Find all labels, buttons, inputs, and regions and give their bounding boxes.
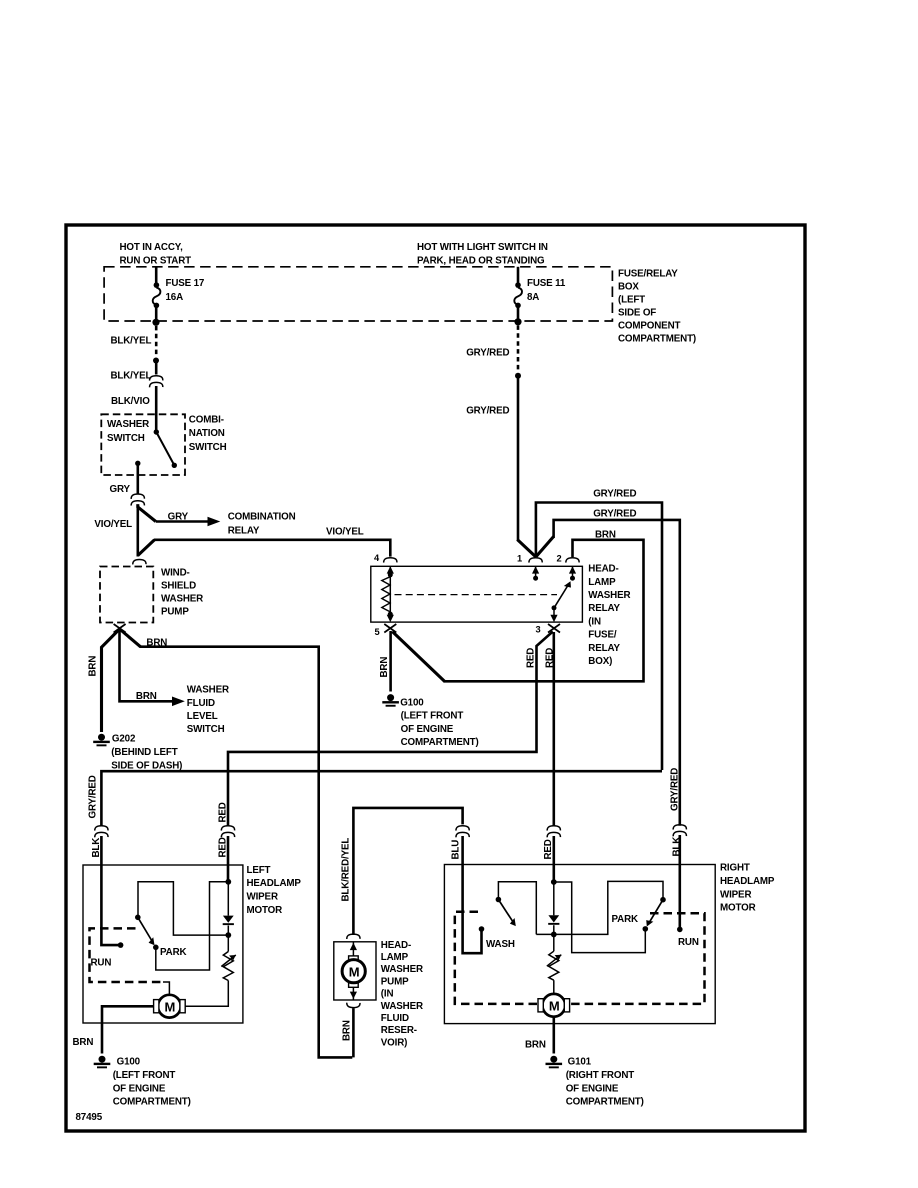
resistor right motor xyxy=(547,934,562,994)
ground G100 left xyxy=(94,1056,191,1108)
svg-text:2: 2 xyxy=(557,554,562,564)
relay switch blade xyxy=(552,580,574,611)
wire GRY/RED line2 with diagonal to pin1 xyxy=(536,520,680,826)
svg-text:WASHER: WASHER xyxy=(588,590,630,601)
wire BLU link bus xyxy=(353,808,462,935)
svg-text:OF ENGINE: OF ENGINE xyxy=(401,724,454,735)
dashed box right motor xyxy=(455,912,705,1004)
connector arc headlamp washer pump top xyxy=(347,934,360,939)
svg-text:COMPARTMENT): COMPARTMENT) xyxy=(401,737,479,748)
label HEADLAMP WASHER RELAY (IN FUSE/RELAY BOX) xyxy=(588,564,630,667)
label HOT WITH LIGHT SWITCH xyxy=(417,242,548,266)
svg-text:GRY/RED: GRY/RED xyxy=(466,348,509,359)
svg-text:WASHER: WASHER xyxy=(187,685,229,696)
pin 4 xyxy=(374,553,397,563)
svg-text:SIDE OF DASH): SIDE OF DASH) xyxy=(111,761,182,772)
svg-text:3: 3 xyxy=(536,625,541,635)
connector C right RED xyxy=(547,826,560,882)
svg-text:HEAD-: HEAD- xyxy=(588,564,618,575)
svg-text:PUMP: PUMP xyxy=(381,976,409,987)
dashed run path left motor xyxy=(90,928,170,994)
svg-text:HEAD-: HEAD- xyxy=(381,940,411,951)
svg-text:(LEFT FRONT: (LEFT FRONT xyxy=(401,711,464,722)
connector arc pump bottom xyxy=(347,1003,360,1008)
svg-text:SWITCH: SWITCH xyxy=(107,433,145,444)
park contact chain right xyxy=(554,882,646,953)
svg-text:LAMP: LAMP xyxy=(588,577,616,588)
wire BRN to G202 xyxy=(102,629,120,732)
svg-text:MOTOR: MOTOR xyxy=(720,903,756,914)
wire GRY/RED link bus to left motor xyxy=(101,771,662,825)
wire GRY/RED dashed from fuse 11 xyxy=(515,325,521,540)
svg-text:(RIGHT FRONT: (RIGHT FRONT xyxy=(566,1070,635,1081)
svg-text:GRY/RED: GRY/RED xyxy=(466,406,509,417)
washer switch box (dashed) xyxy=(101,414,185,475)
svg-text:MOTOR: MOTOR xyxy=(247,905,283,916)
svg-text:WASHER: WASHER xyxy=(381,1001,423,1012)
svg-text:COMPARTMENT): COMPARTMENT) xyxy=(618,334,696,345)
pin 3 xyxy=(536,624,561,635)
connector C left RED xyxy=(221,826,234,882)
svg-text:16A: 16A xyxy=(166,292,184,303)
svg-text:OF ENGINE: OF ENGINE xyxy=(113,1083,166,1094)
wire BRN pin5 to G100 xyxy=(389,631,392,692)
connector C left BLK xyxy=(95,826,108,864)
wire BRN pump return xyxy=(352,1008,355,1057)
svg-text:WIPER: WIPER xyxy=(247,892,278,903)
motor M right xyxy=(538,994,570,1017)
svg-text:BRN: BRN xyxy=(342,1020,353,1041)
svg-text:WASHER: WASHER xyxy=(107,419,149,430)
svg-text:BRN: BRN xyxy=(379,657,390,678)
wire BLU inside to wash contact xyxy=(463,865,485,954)
wire BRN long to headlamp washer pump return xyxy=(120,629,353,1057)
svg-text:HEADLAMP: HEADLAMP xyxy=(247,878,302,889)
switch park left: pivot and blade xyxy=(135,915,159,951)
label HEADLAMP WASHER PUMP (IN WASHER FLUID RESERVOIR) xyxy=(381,940,423,1049)
svg-text:COMPARTMENT): COMPARTMENT) xyxy=(566,1097,644,1108)
right headlamp wiper motor box xyxy=(444,865,715,1024)
svg-text:FUSE/RELAY: FUSE/RELAY xyxy=(618,269,678,280)
svg-text:NATION: NATION xyxy=(189,428,225,439)
pin 1 xyxy=(517,554,542,564)
svg-text:FUSE 11: FUSE 11 xyxy=(527,278,566,289)
svg-text:COMBI-: COMBI- xyxy=(189,414,224,425)
pin 2 xyxy=(557,554,580,564)
svg-text:BRN: BRN xyxy=(136,691,157,702)
svg-text:1: 1 xyxy=(517,554,522,564)
svg-text:LEFT: LEFT xyxy=(247,865,271,876)
relay pin2 contact xyxy=(569,566,576,580)
svg-text:VOIR): VOIR) xyxy=(381,1037,407,1048)
svg-text:FUSE 17: FUSE 17 xyxy=(166,278,205,289)
ground G202 xyxy=(93,734,182,772)
wire GRY to combination relay arrow xyxy=(138,504,221,526)
svg-text:OF ENGINE: OF ENGINE xyxy=(566,1083,619,1094)
connector C right BLK xyxy=(673,825,686,930)
fuse F17 16A xyxy=(152,267,204,326)
svg-text:BLK/RED/YEL: BLK/RED/YEL xyxy=(340,838,351,902)
svg-text:SHIELD: SHIELD xyxy=(161,580,196,591)
svg-text:HOT IN ACCY,: HOT IN ACCY, xyxy=(120,242,184,253)
svg-text:VIO/YEL: VIO/YEL xyxy=(94,519,132,530)
wire GRY from washer switch xyxy=(137,463,140,494)
svg-text:BLK/YEL: BLK/YEL xyxy=(111,371,152,382)
svg-text:PARK: PARK xyxy=(160,947,187,958)
terminal X windshield washer pump xyxy=(114,624,126,633)
ground G100 mid xyxy=(382,694,478,748)
svg-text:BOX): BOX) xyxy=(588,656,612,667)
svg-text:RED: RED xyxy=(217,837,228,857)
svg-text:G100: G100 xyxy=(400,697,424,708)
svg-text:WIPER: WIPER xyxy=(720,889,751,900)
wire RED right branch from pin 3 xyxy=(552,632,555,826)
svg-text:GRY/RED: GRY/RED xyxy=(593,509,636,520)
svg-text:(LEFT: (LEFT xyxy=(618,295,645,306)
right motor RED junction dot xyxy=(551,879,557,885)
svg-text:LAMP: LAMP xyxy=(381,952,409,963)
svg-text:GRY: GRY xyxy=(168,511,189,522)
headlamp washer pump box xyxy=(334,942,376,1000)
svg-text:HOT WITH LIGHT SWITCH IN: HOT WITH LIGHT SWITCH IN xyxy=(417,242,548,253)
label RIGHT HEADLAMP WIPER MOTOR xyxy=(720,862,775,913)
svg-text:GRY/RED: GRY/RED xyxy=(669,768,680,811)
svg-text:BRN: BRN xyxy=(87,656,98,677)
svg-text:VIO/YEL: VIO/YEL xyxy=(326,527,364,538)
left motor park pivot connection stub xyxy=(156,882,229,970)
svg-text:COMPONENT: COMPONENT xyxy=(618,321,680,332)
wire BRN to washer fluid level switch xyxy=(120,629,185,706)
svg-text:WASH: WASH xyxy=(486,939,515,950)
fuse/relay box (dashed) xyxy=(104,267,612,321)
svg-text:RED: RED xyxy=(526,648,537,668)
fuse F11 8A xyxy=(514,267,566,326)
svg-text:RELAY: RELAY xyxy=(588,643,620,654)
connector arc windshield washer pump xyxy=(133,560,146,565)
motor M left xyxy=(154,995,186,1018)
svg-text:BLK/YEL: BLK/YEL xyxy=(111,336,152,347)
svg-text:BRN: BRN xyxy=(73,1037,94,1048)
wire BLK/YEL dashed from fuse 17 xyxy=(153,326,159,375)
svg-text:WIND-: WIND- xyxy=(161,567,190,578)
svg-text:BRN: BRN xyxy=(595,529,616,540)
svg-text:BLU: BLU xyxy=(450,840,461,860)
svg-text:(IN: (IN xyxy=(588,616,601,627)
svg-text:FLUID: FLUID xyxy=(187,698,215,709)
svg-text:HEADLAMP: HEADLAMP xyxy=(720,876,775,887)
svg-text:(LEFT FRONT: (LEFT FRONT xyxy=(113,1070,176,1081)
wire BLK/VIO xyxy=(155,386,158,430)
relay linkage dashed xyxy=(395,594,558,596)
svg-text:PUMP: PUMP xyxy=(161,607,189,618)
svg-text:M: M xyxy=(165,999,176,1014)
svg-text:RED: RED xyxy=(543,839,554,859)
label WASHER FLUID LEVEL SWITCH xyxy=(187,685,229,736)
svg-text:COMBINATION: COMBINATION xyxy=(228,511,296,522)
svg-text:BRN: BRN xyxy=(146,637,167,648)
svg-text:PARK: PARK xyxy=(612,914,639,925)
svg-text:SWITCH: SWITCH xyxy=(187,724,225,735)
svg-text:BLK: BLK xyxy=(671,837,682,857)
svg-text:RESER-: RESER- xyxy=(381,1025,417,1036)
svg-text:87495: 87495 xyxy=(76,1112,103,1123)
pump motor symbol xyxy=(342,942,365,1000)
svg-text:RUN: RUN xyxy=(91,957,112,968)
svg-text:RELAY: RELAY xyxy=(588,603,620,614)
svg-text:GRY/RED: GRY/RED xyxy=(593,489,636,500)
svg-text:GRY/RED: GRY/RED xyxy=(88,775,99,818)
svg-text:BLK/VIO: BLK/VIO xyxy=(111,396,150,407)
wire diagonal fuse11 to relay pin 1 xyxy=(517,540,535,557)
wire VIO/YEL vertical to pump + diagonal to relay line xyxy=(138,504,155,556)
svg-text:WASHER: WASHER xyxy=(381,964,423,975)
left motor RED junction dot xyxy=(225,879,231,885)
svg-text:RUN OR START: RUN OR START xyxy=(120,255,192,266)
switch wash right: pivot and blade xyxy=(496,897,519,928)
label COMBINATION SWITCH xyxy=(189,414,227,453)
svg-text:G202: G202 xyxy=(112,734,136,745)
svg-text:G101: G101 xyxy=(568,1057,592,1068)
connector inline C BLK/YEL-BLK/VIO xyxy=(150,376,163,388)
svg-text:RIGHT: RIGHT xyxy=(720,862,750,873)
svg-text:(IN: (IN xyxy=(381,989,394,1000)
diode left motor xyxy=(223,882,234,938)
svg-text:FLUID: FLUID xyxy=(381,1013,409,1024)
wire GRY/RED line1 pin1 up-over-down xyxy=(536,503,662,771)
label WASHER SWITCH xyxy=(107,419,149,444)
left headlamp wiper motor box xyxy=(83,865,243,1023)
svg-text:BRN: BRN xyxy=(525,1040,546,1051)
svg-text:(BEHIND LEFT: (BEHIND LEFT xyxy=(111,747,177,758)
svg-text:M: M xyxy=(349,964,360,979)
relay coil K1 xyxy=(382,566,394,622)
svg-text:SWITCH: SWITCH xyxy=(189,442,227,453)
connector C BLU xyxy=(456,826,469,864)
label LEFT HEADLAMP WIPER MOTOR xyxy=(247,865,302,916)
svg-text:BOX: BOX xyxy=(618,282,639,293)
svg-text:LEVEL: LEVEL xyxy=(187,711,218,722)
svg-text:RED: RED xyxy=(545,648,556,668)
pin 5 xyxy=(375,624,397,637)
switch park right: pivot and blade xyxy=(643,897,666,932)
wash feed staircase xyxy=(498,882,536,935)
svg-text:SIDE OF: SIDE OF xyxy=(618,308,656,319)
svg-text:G100: G100 xyxy=(117,1057,141,1068)
relay pin3 stem xyxy=(550,608,557,622)
svg-text:5: 5 xyxy=(375,627,380,637)
svg-text:WASHER: WASHER xyxy=(161,594,203,605)
svg-text:COMPARTMENT): COMPARTMENT) xyxy=(113,1097,191,1108)
connector inline C GRY xyxy=(131,494,144,506)
wire BRN line3 pin2 loop to pin5 xyxy=(392,540,643,682)
label WIND-SHIELD WASHER PUMP xyxy=(161,567,203,617)
left motor feed staircase to park pivot xyxy=(138,882,228,935)
svg-text:RELAY: RELAY xyxy=(228,526,260,537)
svg-text:GRY: GRY xyxy=(110,484,131,495)
windshield washer pump box (dashed) xyxy=(100,567,153,623)
svg-text:8A: 8A xyxy=(527,292,539,303)
wire RED left branch from pin 3 xyxy=(228,632,553,826)
left motor RUN contact xyxy=(101,864,123,948)
relay pin1 contact xyxy=(532,566,539,580)
svg-text:BLK: BLK xyxy=(91,838,102,858)
ground G101 xyxy=(546,1056,644,1108)
label FUSE/RELAY BOX (LEFT SIDE OF COMPONENT COMPARTMENT) xyxy=(618,269,696,345)
svg-text:PARK, HEAD OR STANDING: PARK, HEAD OR STANDING xyxy=(417,255,545,266)
svg-text:FUSE/: FUSE/ xyxy=(588,630,617,641)
svg-text:RED: RED xyxy=(217,802,228,822)
resistor left motor xyxy=(185,935,236,1006)
svg-text:M: M xyxy=(549,998,560,1013)
right motor RUN contact xyxy=(677,927,683,933)
diode right motor xyxy=(548,882,559,937)
wire BRN left motor to G100 xyxy=(102,1006,154,1053)
wire BRN right motor to G101 xyxy=(552,1017,555,1054)
rail below diode right xyxy=(536,881,663,934)
svg-text:RUN: RUN xyxy=(678,937,699,948)
relay box headlamp washer relay xyxy=(371,566,583,622)
label COMBINATION RELAY xyxy=(228,511,296,536)
label HOT IN ACCY RUN OR START xyxy=(120,242,192,266)
wire VIO/YEL horizontal to relay pin 4 xyxy=(154,540,390,557)
switch S washer: pivot, blade, contact xyxy=(135,429,177,468)
